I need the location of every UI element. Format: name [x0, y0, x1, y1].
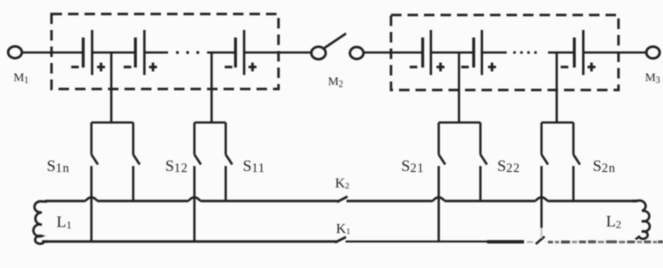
svg-text:L1: L1 [57, 214, 72, 232]
svg-text:L2: L2 [606, 214, 621, 232]
svg-text:S22: S22 [497, 158, 520, 175]
svg-text:M3: M3 [645, 70, 661, 85]
svg-text:S12: S12 [165, 158, 188, 175]
svg-text:S21: S21 [401, 158, 424, 175]
svg-text:M2: M2 [328, 74, 343, 89]
svg-text:S2n: S2n [593, 158, 616, 175]
svg-text:K2: K2 [335, 177, 349, 192]
svg-text:S1n: S1n [47, 158, 70, 175]
svg-text:M1: M1 [14, 70, 29, 85]
svg-text:K1: K1 [336, 222, 350, 237]
svg-text:S11: S11 [243, 158, 266, 175]
